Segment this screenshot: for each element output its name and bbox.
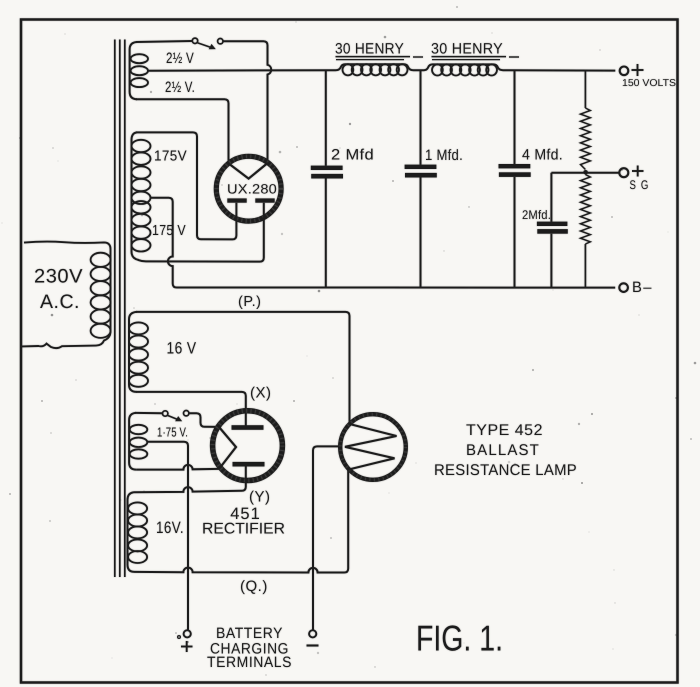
capacitor C1 2 Mfd	[325, 70, 327, 165]
terminal B-	[619, 283, 628, 292]
UX.280 filament	[229, 163, 268, 179]
secondary winding 1.75V	[129, 413, 136, 470]
terminal +150 volts	[620, 67, 629, 76]
wire SG line	[551, 172, 619, 174]
secondary winding 175V+175V	[132, 132, 139, 260]
capacitor C4 2 Mfd	[550, 173, 552, 222]
wire 1.75V mid tap to battery +	[147, 442, 188, 630]
wire lamp left to battery -	[313, 446, 339, 629]
battery terminal -	[309, 630, 316, 637]
secondary winding 16V upper	[129, 312, 137, 392]
wire (Y) 451 bottom plate to 16V lower (hops)	[134, 467, 246, 493]
junction SG tap	[583, 170, 588, 175]
wire filament winding bottom lead to UX-280	[136, 99, 229, 163]
switch S1	[192, 38, 197, 43]
capacitor C2 1 Mfd	[420, 70, 422, 165]
wire (X) 16V bottom to 451 top plate	[136, 392, 246, 426]
UX.280 plate right	[255, 198, 274, 202]
wire filament top lead to switch	[136, 41, 192, 42]
secondary winding 16V lower	[128, 492, 135, 572]
lamp filament zigzag	[345, 424, 397, 470]
terminal +SG	[619, 168, 628, 177]
wire 175V bottom to UX-280 right plate	[138, 203, 264, 262]
UX.280 plate left	[227, 198, 246, 202]
ballast lamp 452	[340, 414, 406, 480]
451 plate bottom	[233, 462, 265, 467]
wire B+ center-tap bus with chokes	[148, 64, 424, 70]
wire switch S2 to 451 filament top	[189, 413, 219, 427]
wire 1.75V bottom to 451 filament bottom (hop)	[136, 465, 219, 470]
wire 16V top to ballast lamp	[136, 312, 350, 424]
transformer core	[115, 40, 125, 578]
choke L2 30 Henry	[432, 64, 443, 75]
switch S2	[163, 411, 168, 416]
wire 175V center tap to B- bus (with hop)	[151, 198, 616, 288]
451 filament	[219, 427, 236, 469]
resistor R1 lower	[581, 175, 591, 245]
primary winding 230V	[22, 242, 111, 349]
wire 175V top to UX-280 left plate	[136, 132, 236, 239]
451 plate top	[232, 425, 264, 430]
wire 1.75V top lead to switch	[135, 412, 162, 414]
rectifier tube U2 451	[213, 411, 283, 481]
battery terminal +	[184, 630, 191, 637]
choke L1 30 Henry	[343, 64, 354, 75]
wire switch to UX-280 filament (with hop over B+ line)	[223, 41, 271, 163]
capacitor C3 4 Mfd	[514, 70, 516, 164]
rectifier tube U1 UX.280	[216, 156, 281, 221]
wire (Q) bus to ballast lamp (hops over battery leads)	[135, 469, 349, 572]
resistor R1 voltage divider upper	[584, 71, 586, 109]
filament winding 2.5V+2.5V	[130, 42, 137, 99]
